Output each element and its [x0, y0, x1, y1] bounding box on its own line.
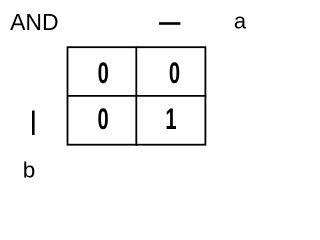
svg-text:0: 0: [98, 57, 109, 90]
cell value 1 base serif: [167, 127, 175, 129]
svg-text:1: 1: [165, 103, 176, 136]
svg-text:b: b: [23, 157, 36, 182]
row marker bar (b axis, row 2): [32, 111, 35, 136]
truth table horizontal divider: [67, 95, 207, 97]
truth table outer border: [68, 47, 206, 145]
svg-text:0: 0: [169, 57, 180, 90]
column marker dash (a axis, column 2): [159, 22, 180, 25]
svg-text:AND: AND: [10, 9, 59, 35]
cell value 0 (row 2, col 1): [98, 103, 109, 136]
cell value 1 (row 2, col 2): [165, 103, 176, 136]
cell value 0 (row 1, col 1): [98, 57, 109, 90]
truth table vertical divider: [135, 46, 137, 146]
cell value 0 (row 1, col 2): [169, 57, 180, 90]
svg-text:0: 0: [98, 103, 109, 136]
svg-text:a: a: [234, 8, 247, 33]
